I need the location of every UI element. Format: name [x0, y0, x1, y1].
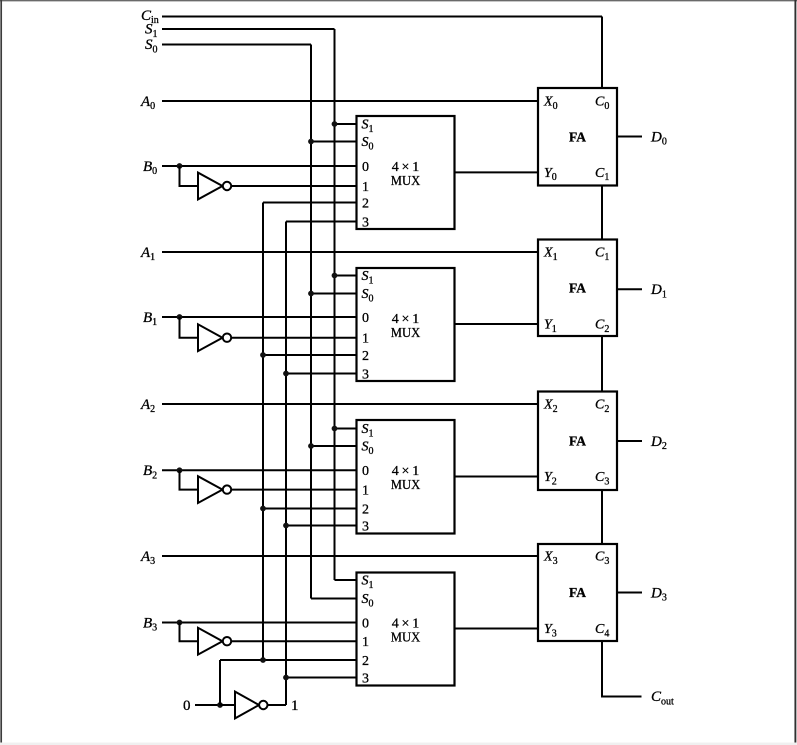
svg-text:FA: FA [569, 130, 587, 145]
svg-text:2: 2 [362, 196, 369, 211]
svg-text:0: 0 [362, 464, 369, 479]
wire D1 output [617, 288, 642, 290]
wire A1 to FA X1 [162, 251, 538, 253]
wire S1 stub to MUX1 [335, 123, 357, 125]
wire B2 branch to inverter [180, 470, 199, 489]
mux MUX3 (4x1) [357, 420, 455, 534]
svg-text:0: 0 [362, 616, 369, 631]
node Cout label [651, 689, 674, 707]
wire S0 stub to MUX4 [311, 598, 357, 600]
wire Cin vertical drop to FA1 C0 [601, 17, 603, 89]
wire S0 horizontal [162, 44, 311, 46]
node 0 junction [217, 702, 223, 708]
wire carry C2 FA2 to FA3 [601, 336, 603, 392]
node S1 label [145, 22, 158, 40]
full adder FA3 [538, 392, 617, 491]
node constant-0 bus junction MUX3 [260, 506, 266, 512]
node constant-0 bus junction MUX4 [260, 657, 266, 663]
node S0 label [145, 37, 158, 55]
node A0 label [140, 94, 155, 112]
wire inverter output to MUX input 1 [231, 489, 356, 491]
node A1 label [140, 245, 155, 263]
wire A2 to FA X2 [162, 403, 538, 405]
full adder FA1 [538, 88, 617, 186]
inverter B0 complement [198, 173, 231, 200]
svg-text:MUX: MUX [391, 630, 421, 645]
wire carry C1 FA1 to FA2 [601, 186, 603, 240]
svg-text:2: 2 [362, 349, 369, 364]
svg-text:FA: FA [569, 281, 587, 296]
svg-text:1: 1 [362, 180, 369, 195]
wire B0 to MUX input 0 [162, 165, 357, 167]
node B3 label [143, 615, 157, 633]
wire constant-0 vertical bus [262, 203, 264, 661]
node Cin label [141, 8, 159, 26]
wire MUX1 output to FA Y0 [455, 171, 539, 173]
node constant-0 bus junction MUX2 [260, 352, 266, 358]
svg-text:3: 3 [362, 671, 369, 686]
wire S0 stub to MUX2 [311, 293, 357, 295]
wire S1 horizontal [162, 28, 335, 30]
wire 0 to junction [195, 704, 220, 706]
wire S0 stub to MUX1 [311, 141, 357, 143]
node B2 junction [177, 467, 183, 473]
node B1 label [143, 310, 157, 328]
wire B3 to MUX input 0 [162, 622, 357, 624]
wire B0 branch to inverter [180, 166, 199, 186]
wire D2 output [617, 440, 642, 442]
mux MUX2 (4x1) [357, 268, 455, 382]
wire S1 stub to MUX3 [335, 428, 357, 430]
wire constant-0 to MUX4 input 2 [220, 659, 357, 661]
wire carry C3 FA3 to FA4 [601, 490, 603, 544]
svg-text:1: 1 [362, 332, 369, 347]
wire B2 to MUX input 0 [162, 469, 357, 471]
wire constant-0 stub to MUX2 input 2 [263, 354, 357, 356]
node D3 label [650, 585, 667, 603]
svg-text:FA: FA [569, 434, 587, 449]
full adder FA4 [538, 544, 617, 641]
wire A3 to FA X3 [162, 555, 538, 557]
node B2 label [143, 463, 157, 481]
wire MUX4 output to FA Y3 [455, 628, 539, 630]
node B1 junction [177, 314, 183, 320]
svg-text:0: 0 [362, 311, 369, 326]
svg-text:2: 2 [362, 502, 369, 517]
svg-text:FA: FA [569, 586, 587, 601]
wire MUX2 output to FA Y1 [455, 323, 539, 325]
wire constant-0 stub to MUX1 input 2 [263, 202, 357, 204]
node S0 bus junction MUX3 [308, 443, 314, 449]
node S1 bus junction MUX2 [332, 273, 338, 279]
wire inverter output to constant-1 bus [268, 704, 287, 706]
wire S1 stub to MUX4 [335, 579, 357, 581]
node A3 label [140, 549, 155, 567]
wire A0 to FA X0 [162, 100, 538, 102]
wire D3 output [617, 592, 642, 594]
node S1 bus junction MUX3 [332, 426, 338, 432]
node D1 label [650, 282, 667, 300]
wire B1 to MUX input 0 [162, 316, 357, 318]
node B0 junction [177, 163, 183, 169]
inverter 0-to-1 [235, 692, 267, 719]
svg-text:MUX: MUX [391, 478, 421, 493]
inverter B1 complement [198, 324, 231, 351]
inverter B3 complement [198, 628, 231, 655]
wire Cin horizontal [162, 16, 602, 18]
svg-text:MUX: MUX [391, 174, 421, 189]
node constant-1 bus junction MUX2 [283, 371, 289, 377]
wire constant-1 vertical bus [285, 222, 287, 706]
svg-text:1: 1 [362, 483, 369, 498]
svg-text:1: 1 [362, 635, 369, 650]
mux MUX1 (4x1) [357, 116, 455, 230]
node A2 label [140, 397, 155, 415]
wire inverter output to MUX input 1 [231, 185, 356, 187]
node constant-1 bus junction MUX4 [283, 675, 289, 681]
node constant-1 bus junction MUX3 [283, 523, 289, 529]
full adder FA2 [538, 240, 617, 337]
svg-text:0: 0 [362, 160, 369, 175]
wire S1 stub to MUX2 [335, 275, 357, 277]
wire MUX3 output to FA Y2 [455, 476, 539, 478]
svg-text:MUX: MUX [391, 326, 421, 341]
wire 0 junction up to MUX4 input 2 [219, 660, 221, 705]
node B0 label [143, 159, 157, 177]
node B3 junction [177, 620, 183, 626]
wire D0 output [617, 136, 642, 138]
wire B1 branch to inverter [180, 317, 199, 338]
node S0 bus junction MUX2 [308, 291, 314, 297]
svg-text:0: 0 [183, 698, 191, 714]
svg-text:1: 1 [291, 698, 299, 714]
wire constant-0 stub to MUX3 input 2 [263, 508, 357, 510]
wire constant-1 to MUX4 input 3 [286, 677, 357, 679]
wire inverter output to MUX input 1 [231, 640, 356, 642]
wire B3 branch to inverter [180, 623, 199, 642]
svg-text:3: 3 [362, 519, 369, 534]
wire S0 vertical bus [310, 45, 312, 599]
wire carry C4 to Cout [602, 641, 642, 697]
wire S1 vertical bus [334, 29, 336, 580]
svg-text:3: 3 [362, 215, 369, 230]
svg-text:2: 2 [362, 654, 369, 669]
wire 0 into inverter [220, 704, 235, 706]
node D0 label [650, 129, 667, 147]
svg-text:3: 3 [362, 367, 369, 382]
wire constant-1 stub to MUX3 input 3 [286, 525, 357, 527]
node S0 bus junction MUX1 [308, 139, 314, 145]
wire constant-1 stub to MUX1 input 3 [286, 221, 357, 223]
node D2 label [650, 434, 667, 452]
wire S0 stub to MUX3 [311, 445, 357, 447]
wire constant-1 stub to MUX2 input 3 [286, 373, 357, 375]
wire inverter output to MUX input 1 [231, 337, 356, 339]
inverter B2 complement [198, 476, 231, 503]
node S1 bus junction MUX1 [332, 121, 338, 127]
mux MUX4 (4x1) [357, 573, 455, 687]
